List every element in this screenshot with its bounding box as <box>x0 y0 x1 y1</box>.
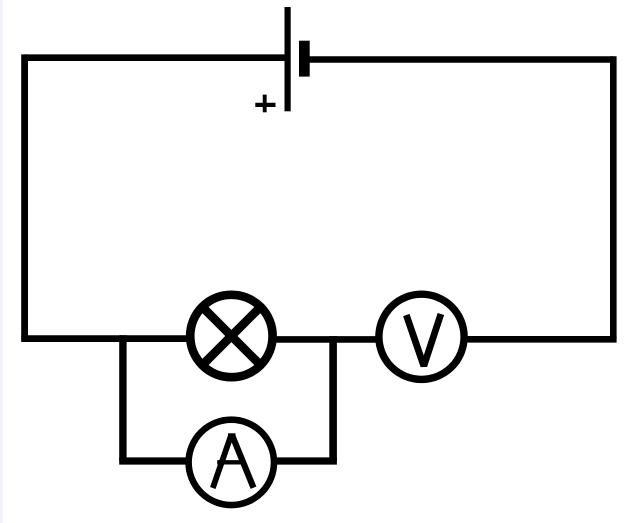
wire left branch horizontal to ammeter <box>119 457 187 464</box>
wire top-left from battery positive plate to top-left corner <box>25 54 288 61</box>
voltmeter V1 <box>379 294 464 379</box>
battery positive plate (long) <box>285 7 291 111</box>
wire voltmeter to bottom-right corner <box>467 336 617 343</box>
letter A <box>213 436 231 489</box>
node junction right of lamp (ammeter branch tap) <box>329 336 337 343</box>
wire bottom-left to lamp <box>21 335 187 342</box>
lamp L1 <box>190 295 272 377</box>
left page-edge strip <box>0 0 3 523</box>
wire right branch vertical down to ammeter level <box>329 339 337 461</box>
wire right vertical side <box>610 56 617 339</box>
wire left vertical side <box>21 54 28 338</box>
ammeter A1 <box>189 420 274 505</box>
node junction left of lamp (ammeter branch tap) <box>119 335 126 342</box>
battery polarity label + <box>255 95 275 113</box>
wire left branch vertical down to ammeter level <box>119 339 126 461</box>
battery B1 <box>255 7 309 112</box>
battery negative plate (short thick) <box>299 41 310 77</box>
wire right branch horizontal to ammeter <box>276 457 337 464</box>
letter V <box>406 314 441 366</box>
wire top-right from battery negative plate to top-right corner <box>304 56 613 63</box>
wire lamp to voltmeter <box>276 336 376 343</box>
